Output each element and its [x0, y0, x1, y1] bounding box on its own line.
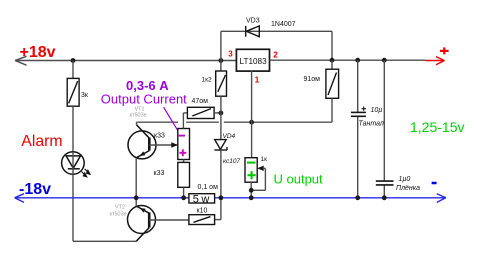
svg-text:LT1083: LT1083	[240, 57, 268, 66]
resistor R 3к	[67, 78, 79, 106]
svg-text:к33: к33	[154, 170, 165, 177]
svg-text:Тантал: Тантал	[359, 120, 384, 127]
wire 3k to LED	[72, 106, 74, 152]
svg-text:+18v: +18v	[20, 44, 56, 61]
node junction wiper/bottom	[249, 188, 254, 193]
svg-text:кс107: кс107	[223, 158, 240, 165]
wire 47om right lead	[214, 112, 221, 114]
svg-text:U output: U output	[274, 172, 324, 187]
node junction out/1u0	[382, 58, 387, 63]
svg-text:-18v: -18v	[19, 181, 51, 198]
wire 1к wiper loop	[251, 168, 265, 198]
wire к33 to blue rail	[183, 187, 185, 198]
wire pin1 ADJ	[251, 71, 253, 158]
capacitor C1 10µ Тантал	[357, 60, 359, 198]
node junction rail/1µ0	[382, 195, 387, 200]
svg-text:47ом: 47ом	[192, 98, 209, 105]
svg-text:VD3: VD3	[246, 17, 260, 24]
svg-text:1: 1	[255, 76, 260, 85]
node junction 47om/1k2	[219, 111, 224, 116]
node junction rail/10µ	[355, 195, 360, 200]
wire OUT rail (pin2)	[270, 59, 426, 61]
wire VD4 to blue rail and к10	[215, 150, 221, 220]
svg-text:Alarm: Alarm	[21, 133, 62, 150]
wire +18v top rail	[15, 56, 236, 65]
wiper arrow into 1к pot	[257, 166, 264, 171]
svg-text:1N4007: 1N4007	[271, 21, 296, 28]
annotation line output current	[164, 107, 182, 136]
svg-text:кт503е: кт503е	[130, 113, 147, 119]
node junction out/10u	[355, 58, 360, 63]
wire -18v blue rail	[15, 194, 446, 203]
svg-text:кт503е: кт503е	[110, 212, 127, 218]
svg-text:3к: 3к	[81, 92, 89, 99]
node junction ADJ/pin1	[249, 120, 254, 125]
svg-text:к10: к10	[197, 208, 208, 215]
wire ADJ horizontal (collector VT1 to pin1 to 91om)	[137, 121, 333, 123]
svg-text:Output Current: Output Current	[101, 92, 187, 107]
svg-text:к33: к33	[154, 133, 165, 140]
node - output label	[432, 182, 437, 185]
LED HL1	[62, 152, 85, 175]
node junction rail/VD4	[219, 195, 224, 200]
node junction out/91om	[330, 58, 335, 63]
capacitor C2 1µ0 Плёнка	[383, 60, 385, 198]
svg-text:0,1 ом: 0,1 ом	[198, 184, 219, 191]
svg-text:1к: 1к	[261, 156, 268, 163]
LED emission arrows	[82, 169, 91, 177]
svg-text:1µ0: 1µ0	[399, 176, 411, 183]
node junction rail/1к pot	[249, 195, 254, 200]
node junction top rail / 3k	[71, 58, 76, 63]
svg-text:10µ: 10µ	[371, 107, 383, 114]
svg-text:VT2: VT2	[115, 205, 125, 211]
VT2 emitter arrow	[140, 208, 146, 213]
wire pot к33 top to 47om left	[183, 113, 187, 162]
regulator U1 LT1083	[236, 49, 269, 71]
svg-text:3: 3	[228, 50, 233, 59]
svg-text:2: 2	[273, 50, 278, 59]
node junction top rail / 1k2+VD3	[219, 58, 224, 63]
wire LED to VT2 collector	[73, 174, 136, 241]
svg-text:91ом: 91ом	[304, 76, 321, 83]
wire red output arrow	[425, 57, 444, 65]
wire 3k top lead	[72, 61, 74, 79]
node junction rail/emitters	[134, 195, 139, 200]
svg-text:1,25-15v: 1,25-15v	[410, 119, 464, 135]
node junction rail/к33	[181, 195, 186, 200]
wiper arrow into к33 pot	[171, 142, 178, 147]
svg-text:5w: 5w	[193, 194, 212, 206]
VT1 emitter arrow	[140, 151, 146, 156]
svg-text:1к2: 1к2	[202, 77, 212, 84]
node + output label	[440, 47, 449, 54]
wire VD3 branch	[221, 31, 332, 60]
svg-text:Плёнка: Плёнка	[396, 185, 420, 192]
